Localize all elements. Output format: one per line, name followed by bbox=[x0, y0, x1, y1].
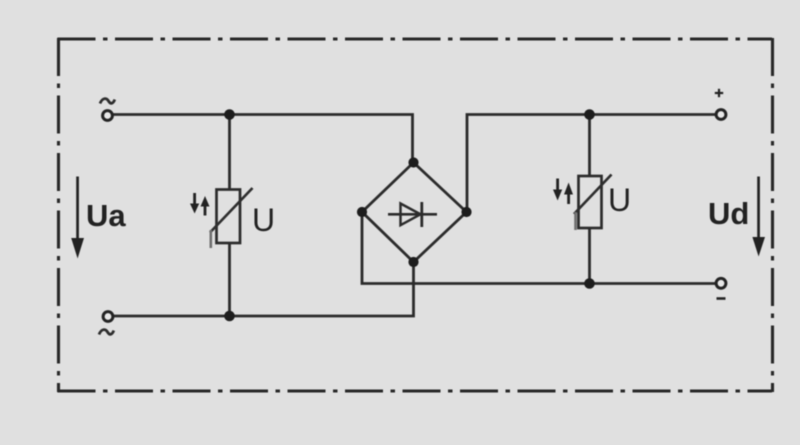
node: bridge right corner bbox=[461, 207, 471, 217]
svg-text:Ud: Ud bbox=[708, 196, 749, 231]
terminal: AC input bottom (~) bbox=[103, 312, 113, 322]
enclosure boundary bottom bbox=[58, 389, 773, 392]
wire: right varistor branch bbox=[588, 115, 591, 284]
terminal: DC minus output bbox=[716, 278, 726, 288]
wire: top AC line from left terminal to bridge top corner bbox=[113, 115, 413, 163]
wire: bottom AC line from left terminal to bridge bottom corner bbox=[113, 262, 414, 316]
terminal: AC input top (~) bbox=[103, 111, 113, 121]
svg-text:Ua: Ua bbox=[86, 198, 126, 233]
varistor R1 body bbox=[217, 190, 241, 244]
arrow: Ud voltage arrow bbox=[752, 177, 765, 257]
label: plus sign bbox=[715, 89, 723, 97]
junction: top AC / left varistor bbox=[224, 109, 235, 120]
node: bridge top corner bbox=[408, 157, 418, 167]
varistor R2 characteristic arrows bbox=[553, 179, 573, 205]
varistor R2 value label U bbox=[608, 182, 631, 218]
label: minus sign bbox=[717, 297, 726, 300]
varistor R1 diagonal stroke bbox=[210, 188, 253, 233]
svg-text:U: U bbox=[252, 202, 275, 238]
wire: DC minus line from bridge left corner to - terminal bbox=[362, 213, 716, 284]
varistor R1 diagonal foot bbox=[210, 230, 213, 248]
enclosure boundary right bbox=[771, 38, 774, 392]
enclosure boundary left bbox=[57, 38, 60, 392]
junction: bottom DC / right varistor bbox=[584, 278, 595, 289]
node: bridge bottom corner bbox=[408, 257, 418, 267]
arrow: Ua voltage arrow bbox=[71, 177, 84, 259]
label: tilde above top AC terminal bbox=[100, 99, 115, 104]
varistor R2 body bbox=[579, 176, 602, 228]
label: tilde below bottom AC terminal bbox=[99, 330, 114, 335]
varistor R1 characteristic arrows bbox=[190, 193, 210, 216]
terminal: DC plus output bbox=[716, 110, 726, 120]
node: bridge left corner bbox=[357, 207, 367, 217]
junction: bottom AC / left varistor bbox=[224, 311, 235, 322]
varistor R2 diagonal foot bbox=[574, 212, 577, 230]
wire: left varistor branch bbox=[228, 115, 231, 317]
varistor R1 value label U bbox=[252, 202, 275, 238]
wire: top DC line from bridge right corner to + terminal bbox=[467, 115, 716, 212]
label: Ud bbox=[708, 196, 749, 231]
bridge rectifier diode symbol bbox=[388, 202, 437, 227]
enclosure boundary top bbox=[58, 37, 773, 40]
label: Ua bbox=[86, 198, 126, 233]
svg-text:U: U bbox=[608, 182, 631, 218]
bridge rectifier V1 diamond bbox=[362, 163, 467, 263]
junction: top DC / right varistor bbox=[584, 109, 595, 120]
varistor R2 diagonal stroke bbox=[574, 175, 612, 215]
